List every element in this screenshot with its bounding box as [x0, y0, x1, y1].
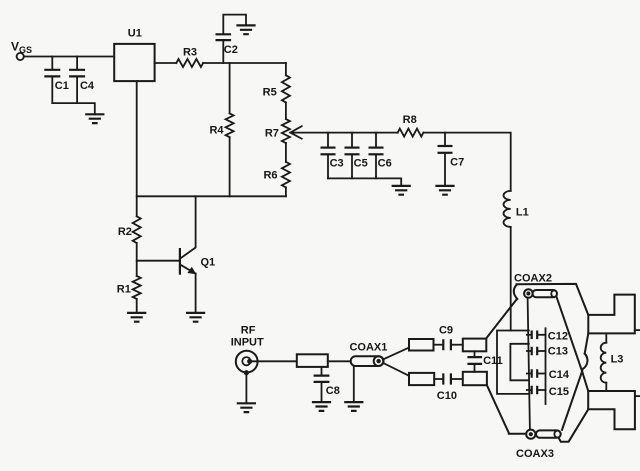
svg-text:C13: C13 [548, 346, 568, 358]
svg-text:C6: C6 [378, 158, 392, 170]
svg-text:R6: R6 [263, 170, 277, 182]
svg-text:R4: R4 [209, 124, 224, 136]
svg-text:C3: C3 [330, 158, 344, 170]
svg-text:COAX2: COAX2 [514, 272, 552, 284]
svg-text:C2: C2 [224, 44, 238, 56]
svg-text:C4: C4 [80, 80, 95, 92]
svg-text:C10: C10 [437, 390, 457, 402]
svg-text:RF: RF [241, 324, 256, 336]
svg-text:C7: C7 [450, 157, 464, 169]
svg-text:R1: R1 [117, 283, 131, 295]
svg-text:INPUT: INPUT [231, 337, 264, 349]
svg-text:R3: R3 [183, 47, 197, 59]
svg-text:R5: R5 [263, 87, 277, 99]
svg-text:R7: R7 [265, 127, 279, 139]
svg-text:COAX3: COAX3 [516, 448, 554, 460]
svg-text:R2: R2 [118, 226, 132, 238]
svg-text:C12: C12 [548, 331, 568, 343]
svg-text:L1: L1 [516, 206, 529, 218]
svg-text:C14: C14 [549, 369, 570, 381]
svg-text:R8: R8 [403, 114, 417, 126]
svg-text:C11: C11 [483, 355, 503, 367]
svg-text:C15: C15 [549, 386, 569, 398]
svg-text:C5: C5 [354, 158, 368, 170]
svg-text:COAX1: COAX1 [349, 341, 387, 353]
svg-text:Q1: Q1 [200, 257, 215, 269]
svg-text:C9: C9 [439, 325, 453, 337]
svg-text:L3: L3 [611, 354, 624, 366]
svg-text:C1: C1 [55, 80, 69, 92]
svg-text:U1: U1 [128, 28, 142, 40]
svg-text:C8: C8 [326, 385, 340, 397]
